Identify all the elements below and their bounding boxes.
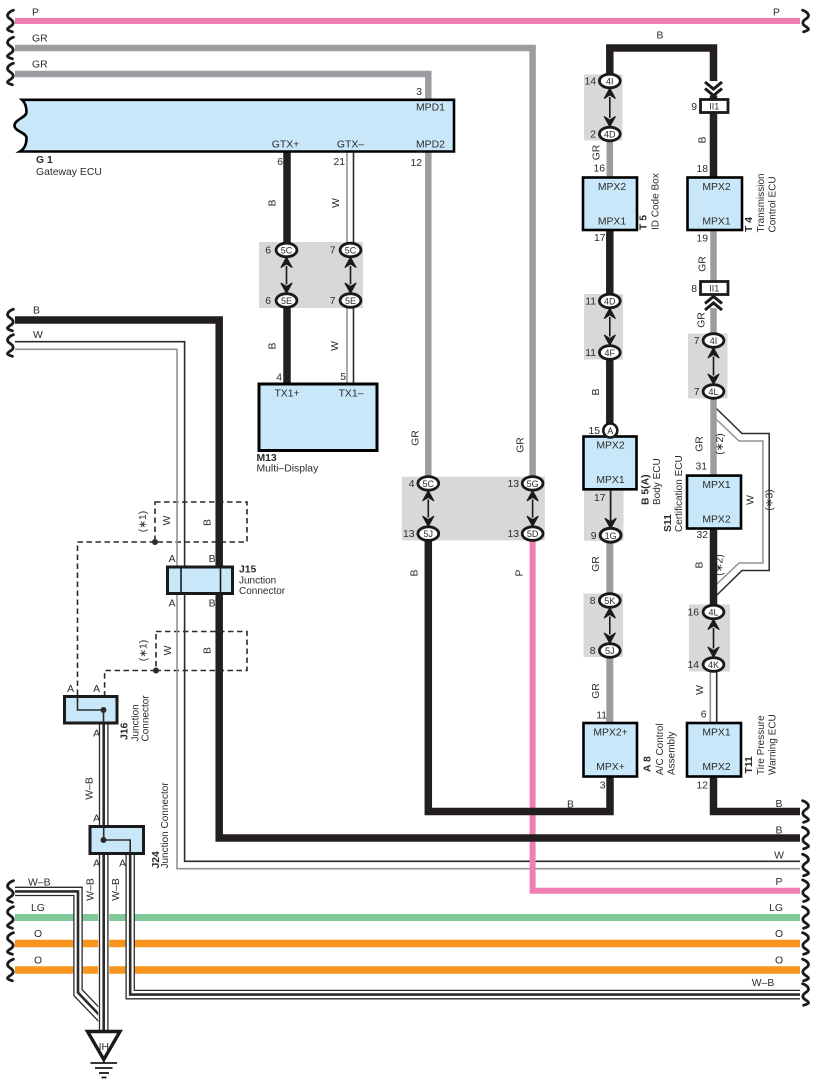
svg-text:W: W [695,685,706,695]
svg-text:5C: 5C [281,246,293,256]
svg-text:W–B: W–B [752,978,775,989]
break B right full row [803,827,809,849]
svg-text:P: P [32,8,39,19]
label G1 designator [36,155,102,178]
wire W 5E to M13 pin5 [347,307,354,384]
svg-text:GR: GR [32,60,48,71]
relay block box II1 pin9 [701,100,729,113]
mid connector pin numbers [403,479,519,540]
svg-text:Multi–Display: Multi–Display [257,464,320,475]
label T4 designator [744,173,779,232]
svg-text:IH: IH [99,1042,109,1053]
svg-text:MPX1: MPX1 [596,475,625,486]
oval 4L pin16 [703,605,724,619]
svg-text:B 5(A): B 5(A) [641,474,652,505]
wire B 5J mid down and across to A8 pin3 [428,541,610,812]
svg-text:MPX2: MPX2 [702,515,731,526]
connector arrows 5K/5J [604,608,615,644]
J24 pin letters bottom [93,859,126,870]
junction connector J24 [90,827,144,854]
svg-text:18: 18 [696,164,708,175]
break O2 right [803,959,809,981]
label J15 designator [239,565,286,598]
svg-text:B: B [567,800,574,811]
svg-text:W: W [330,341,341,351]
wire GR chevron to 4I [710,308,717,334]
svg-text:4F: 4F [605,348,616,358]
svg-text:MPD2: MPD2 [416,140,445,151]
svg-text:8: 8 [691,284,697,295]
svg-text:W–B: W–B [85,777,96,800]
label J24 designator [151,782,171,869]
svg-text:5J: 5J [605,646,615,656]
svg-text:4K: 4K [708,660,719,670]
oval 4I pin14 [599,74,620,88]
oval 5C pin6 [276,243,297,257]
wire GR top2 left edge to G1 pin3 [15,74,428,100]
svg-text:21: 21 [333,157,345,168]
svg-text:6: 6 [265,246,271,257]
T4 pin names [702,182,731,228]
svg-text:12: 12 [696,781,708,792]
wire GR 4D to T5 [607,141,614,179]
wire W (GTX-) G1 to 5C [347,152,354,245]
svg-text:3: 3 [600,781,606,792]
ground IH [88,1032,121,1078]
svg-text:7: 7 [694,387,700,398]
svg-text:A 8: A 8 [643,756,654,772]
svg-text:B: B [203,647,214,654]
II1 pin9 [691,102,719,113]
label B5 designator [641,458,664,505]
oval 4I pin7 [703,334,724,348]
svg-text:4: 4 [276,373,282,384]
ECU T11 Tire Pressure Warning ECU [687,723,741,777]
svg-text:GR: GR [592,144,603,160]
svg-text:P: P [776,877,783,888]
connector arrows 5C/5E left [281,257,292,293]
wire thin B5 pin17 to 1G arrow [610,489,612,522]
svg-text:(∗3): (∗3) [765,489,776,510]
break O1 left [7,933,13,955]
connector arrows 4L/4K T4 [708,619,719,657]
wire GR 1G to 5K [606,542,613,594]
svg-text:8: 8 [590,596,596,607]
svg-text:T 4: T 4 [744,217,755,232]
connector shell 4L/4K [689,605,730,672]
svg-text:J15: J15 [239,565,257,576]
J15 pin letters bottom [169,599,216,610]
svg-text:(∗2): (∗2) [715,554,726,575]
svg-text:A/C Control: A/C Control [655,723,666,775]
svg-text:TX1–: TX1– [339,389,364,400]
svg-text:MPD1: MPD1 [416,103,445,114]
svg-text:M13: M13 [257,453,277,464]
svg-text:II1: II1 [709,102,719,112]
svg-text:4D: 4D [604,130,616,140]
svg-text:W: W [774,851,784,862]
svg-text:Junction Connector: Junction Connector [160,782,171,869]
svg-text:B: B [410,569,421,576]
J15 pin letters top [169,554,216,565]
svg-text:Connector: Connector [141,695,152,742]
pins 5C/5E [265,246,336,308]
svg-text:MPX1: MPX1 [702,480,731,491]
svg-text:GR: GR [695,436,706,452]
oval A pin15 [603,424,617,438]
svg-text:7: 7 [330,296,336,307]
ECU G1 Gateway ECU [15,100,455,152]
svg-text:5J: 5J [424,529,434,539]
junction connector J15 [168,567,233,594]
oval 5G pin13 mid [522,477,543,491]
svg-text:13: 13 [403,529,415,540]
svg-text:Warning ECU: Warning ECU [768,714,779,775]
svg-text:5G: 5G [527,479,539,489]
svg-text:9: 9 [691,102,697,113]
svg-text:B: B [776,799,783,810]
svg-text:LG: LG [769,903,783,914]
svg-text:7: 7 [330,246,336,257]
svg-text:5E: 5E [345,296,356,306]
pins 4L/4K [687,608,699,672]
svg-text:W–B: W–B [28,878,51,889]
svg-text:O: O [775,956,783,967]
svg-text:A: A [169,599,176,610]
svg-text:4: 4 [409,479,415,490]
oval 4D pin11 [599,294,620,308]
svg-text:6: 6 [277,157,283,168]
svg-text:B: B [591,388,602,395]
svg-text:W: W [331,198,342,208]
wire P 5D down to bottom right [533,541,800,891]
svg-text:Certification ECU: Certification ECU [674,455,685,532]
svg-text:16: 16 [593,164,605,175]
connector arrows mid left [423,491,434,527]
chevron marker down at II1 pin9 [705,82,722,96]
S11 pin names [702,480,731,526]
T5 column pin numbers top [584,77,596,141]
wire B T5 pin17 to 4D [606,230,614,295]
wire P top [15,18,800,24]
svg-text:O: O [775,929,783,940]
wire W left edge to J15 to bottom right [15,342,800,869]
svg-text:(∗1): (∗1) [139,640,150,661]
svg-text:(∗1): (∗1) [138,511,149,532]
wire B II1 to T4 [710,113,718,179]
svg-text:Tire Pressure: Tire Pressure [756,715,767,775]
svg-text:MPX2: MPX2 [702,762,731,773]
svg-text:GTX–: GTX– [337,140,364,151]
oval 4D pin2 [599,127,620,141]
ECU A8 A/C Control Assembly [584,723,638,777]
svg-text:B: B [209,599,216,610]
svg-text:ID Code Box: ID Code Box [651,173,662,230]
svg-text:4I: 4I [710,336,718,346]
svg-text:W: W [33,330,43,341]
svg-text:B: B [698,136,709,143]
label S11 designator [663,455,685,532]
svg-text:32: 32 [696,530,708,541]
wire O bottom 2 [15,966,800,974]
svg-text:O: O [34,956,42,967]
oval 5K pin8 [599,594,620,608]
svg-text:B: B [776,826,783,837]
break LG left [7,907,13,929]
junction connector J16 [65,697,118,724]
ECU S11 Certification ECU [687,476,741,529]
wire W-B band J24 right leg to bottom edge [126,854,800,999]
A8 pin names [593,728,627,774]
dashed option box (*1) lower [156,632,247,671]
dashed wire from lower option box to J16 [105,671,156,697]
oval 5D pin13 mid [522,527,543,541]
svg-text:5K: 5K [604,596,615,606]
svg-text:5C: 5C [345,246,357,256]
svg-text:5: 5 [340,372,346,383]
connector arrow 1G single [605,518,616,528]
wire W bypass (*3) at S11 [716,409,769,596]
svg-text:3: 3 [416,87,422,98]
svg-text:W: W [746,495,757,505]
connector arrows 5C/5E right [345,257,356,293]
svg-text:GTX+: GTX+ [272,140,299,151]
labels W-B wires below J24 [86,878,123,901]
svg-text:4L: 4L [708,387,718,397]
break B right A8 row [803,801,809,823]
svg-text:8: 8 [590,646,596,657]
break O1 right [803,933,809,955]
dashed option box (*1) upper [155,502,247,542]
wire B 5E to M13 pin4 [283,307,291,384]
svg-text:Junction: Junction [239,576,276,587]
wire W-B left edge to ground [15,887,107,1022]
svg-text:2: 2 [590,130,596,141]
svg-text:16: 16 [687,608,699,619]
wire GR top1 left edge to 5G [15,48,533,477]
svg-text:A: A [93,729,100,740]
wire B stub chevron to II1 top [710,96,718,101]
wire B S11 pin32 to 4L [710,529,718,607]
svg-text:MPX2+: MPX2+ [593,728,627,739]
svg-text:W: W [163,645,174,655]
svg-text:14: 14 [584,77,596,88]
break W right [803,854,809,876]
svg-text:Transmission: Transmission [756,173,767,232]
break B left [7,309,13,331]
oval 5J pin8 [599,644,620,658]
connector arrows 4I/4L T4 [708,348,719,385]
break W-B left [7,881,13,903]
break O2 left [7,959,13,981]
break LG right [803,907,809,929]
ECU T5 ID Code Box [583,178,637,231]
oval 5E pin7 [340,294,361,308]
M13 pin numbers [276,372,346,384]
wire B left edge down across bottom to right edge [15,320,800,838]
svg-text:GR: GR [697,312,708,328]
break GR top2 left [7,63,13,85]
junction dot lower option box [153,668,159,674]
label M13 designator [257,453,320,475]
svg-text:15: 15 [588,426,600,437]
label A8 designator [643,723,678,775]
connector shell 5C/5J/5G/5D [402,477,545,541]
svg-text:W–B: W–B [111,878,122,901]
svg-text:Body ECU: Body ECU [652,458,663,505]
G1 pin numbers bottom [277,157,422,169]
svg-text:11: 11 [585,297,596,308]
T11 pin names [702,728,731,774]
oval 5C pin4 mid [418,477,439,491]
connector arrows mid right [527,491,538,527]
svg-text:5D: 5D [527,529,539,539]
svg-text:GR: GR [591,683,602,699]
svg-text:A: A [67,684,74,695]
svg-text:6: 6 [265,296,271,307]
svg-text:5E: 5E [281,296,292,306]
G1 pin names [272,103,445,151]
svg-text:31: 31 [695,462,707,473]
svg-text:P: P [515,569,526,576]
svg-text:4I: 4I [606,77,614,87]
connector arrows 4D/4F [604,308,615,345]
break P top left [7,10,13,32]
svg-text:P: P [773,8,780,19]
T5 pin names [598,182,627,228]
svg-text:S11: S11 [663,514,674,532]
svg-text:B: B [203,519,214,526]
connector shell 5C/5E [259,242,363,308]
svg-text:MPX2: MPX2 [596,441,625,452]
svg-text:6: 6 [701,710,707,721]
pins 4I/4L [694,336,700,398]
svg-text:LG: LG [31,903,45,914]
svg-text:12: 12 [410,158,422,169]
wire B G1 GTX+ to 5C [283,152,291,245]
svg-text:17: 17 [594,493,606,504]
wire GR G1 pin12 to 5C mid [425,152,432,478]
II1 pin8 [691,284,719,295]
svg-text:A: A [169,554,176,565]
svg-text:B: B [33,306,40,317]
svg-text:17: 17 [594,233,606,244]
wire B T11 pin12 to right edge [714,777,801,812]
wire GR 4L to S11 pin31 [710,399,717,477]
svg-text:14: 14 [687,660,699,671]
svg-text:W: W [162,515,173,525]
svg-text:(∗2): (∗2) [715,433,726,454]
svg-text:MPX1: MPX1 [702,728,731,739]
svg-text:13: 13 [507,529,519,540]
ECU M13 Multi-Display [259,384,377,451]
svg-text:GR: GR [591,556,602,572]
svg-text:11: 11 [596,711,607,722]
svg-text:5C: 5C [423,479,435,489]
wire B 4F to oval A [606,359,614,424]
connector shell 4I/4D [584,75,623,141]
oval 4L pin7 [703,385,724,399]
junction dot upper option box [152,539,158,545]
connector shell 4I/4L [688,334,728,399]
break GR top1 left [7,37,13,59]
svg-text:Assembly: Assembly [667,732,678,775]
svg-text:B: B [268,342,279,349]
ECU B5(A) Body ECU [584,437,637,490]
svg-text:MPX+: MPX+ [596,762,625,773]
svg-text:4D: 4D [604,297,616,307]
svg-text:O: O [34,929,42,940]
svg-text:A: A [93,684,100,695]
labels option box upper [138,511,214,532]
svg-text:GR: GR [32,34,48,45]
wire GR T4 pin19 to II1 [710,230,717,282]
svg-text:A: A [119,859,126,870]
svg-text:19: 19 [696,234,708,245]
svg-text:GR: GR [698,256,709,272]
svg-text:1G: 1G [605,531,617,541]
break W left [7,335,13,357]
svg-text:MPX1: MPX1 [598,217,627,228]
svg-text:J16: J16 [120,722,131,740]
svg-text:T11: T11 [744,756,755,774]
J16 pin letters top [67,684,100,695]
svg-text:Gateway ECU: Gateway ECU [36,167,102,178]
oval 1G pin9 [600,528,621,542]
ECU T4 Transmission Control ECU [688,178,743,231]
oval 5E pin6 [276,294,297,308]
svg-text:A: A [607,426,613,436]
svg-text:MPX2: MPX2 [598,182,627,193]
connector shell 4D/4F [584,294,623,360]
svg-text:GR: GR [411,430,422,446]
svg-text:MPX1: MPX1 [702,217,731,228]
B5 pin names [596,441,625,487]
svg-text:13: 13 [507,479,519,490]
oval 5J pin13 mid [418,527,439,541]
svg-text:B: B [268,199,279,206]
labels option box lower [139,640,214,661]
label T5 designator [639,173,662,230]
dashed wire from upper option box to J16 [78,542,156,697]
break W-B right [803,984,809,1006]
svg-text:7: 7 [694,336,700,347]
svg-text:B: B [695,561,706,568]
connector arrows 4I/4D [604,88,615,127]
svg-text:G 1: G 1 [36,155,53,166]
svg-text:11: 11 [585,348,596,359]
break P top right [803,10,809,32]
pins 5K/5J [590,596,596,657]
svg-text:II1: II1 [709,284,719,294]
svg-text:Control ECU: Control ECU [768,176,779,232]
wire W-B band J24 to ground [98,854,109,1034]
svg-text:Connector: Connector [239,586,286,597]
oval 4K pin14 [703,658,724,672]
oval 4F pin11 [599,346,620,360]
wire O bottom 1 [15,940,800,948]
svg-text:A: A [93,814,100,825]
wire LG bottom [15,914,800,921]
wire W-B band from J16 upper segment [100,723,108,827]
oval 5C pin7 [340,243,361,257]
svg-text:A: A [93,859,100,870]
svg-text:T 5: T 5 [639,215,650,230]
wire W 4K to T11 pin6 [710,672,716,724]
relay block box II1 pin8 [701,282,729,295]
break P right [803,880,809,902]
svg-text:W–B: W–B [86,878,97,901]
